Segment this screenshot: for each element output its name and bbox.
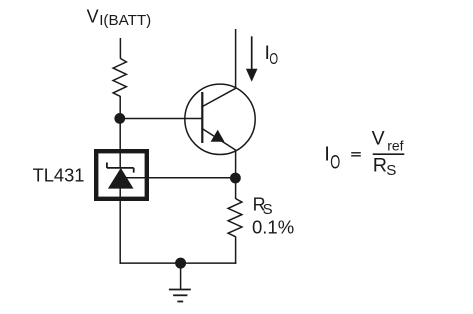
svg-text:R: R (373, 155, 387, 177)
TL431 shunt regulator U1 (96, 151, 147, 199)
junction emitter node (230, 173, 241, 184)
label I_O in equation (324, 144, 340, 174)
wire bottom rail (120, 262, 237, 264)
svg-text:V: V (87, 7, 99, 27)
resistor input series (113, 59, 126, 97)
wire RS bottom (235, 237, 237, 264)
wire TL431 reference lead (126, 177, 235, 179)
junction ground node (175, 258, 186, 269)
svg-text:TL431: TL431 (33, 165, 85, 186)
svg-text:I(BATT): I(BATT) (99, 12, 151, 29)
svg-text:V: V (372, 128, 385, 150)
wire TL431 anode vertical (119, 188, 121, 264)
svg-text:O: O (330, 152, 340, 173)
svg-text:ref: ref (387, 138, 403, 154)
svg-text:O: O (269, 50, 278, 67)
svg-text:0.1%: 0.1% (252, 217, 294, 238)
wire collector vertical (235, 29, 237, 89)
svg-text:S: S (263, 201, 273, 218)
svg-text:I: I (324, 144, 330, 166)
fraction bar (373, 153, 405, 155)
equals sign (351, 152, 361, 156)
wire RS top (235, 178, 237, 199)
label R_S denominator (373, 155, 397, 180)
arrow I_O current (246, 36, 258, 81)
wire base node vertical (119, 96, 121, 168)
label V_I(BATT) (87, 7, 152, 29)
resistor RS (228, 199, 242, 237)
ground (169, 263, 191, 301)
junction base node (114, 113, 125, 124)
svg-text:S: S (386, 162, 396, 179)
transistor Q1 (185, 84, 255, 154)
label I_O at arrow (265, 42, 279, 67)
wire input top vertical (119, 38, 121, 59)
label V_ref numerator (372, 128, 404, 154)
wire emitter vertical (235, 150, 237, 178)
wire base lead (120, 118, 202, 120)
label RS (253, 194, 273, 218)
